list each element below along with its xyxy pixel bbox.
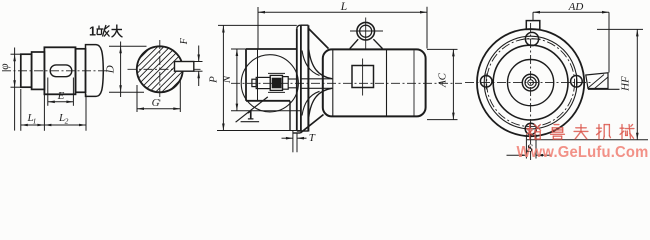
svg-text:2: 2 (65, 116, 69, 125)
svg-text:AD: AD (568, 1, 584, 13)
svg-text:E: E (57, 90, 65, 102)
svg-text:G: G (152, 97, 160, 109)
svg-text:φ: φ (0, 63, 11, 70)
svg-text:AC: AC (436, 72, 448, 88)
svg-text:T: T (309, 132, 316, 144)
svg-text:P: P (207, 76, 219, 84)
svg-text:1: 1 (247, 109, 254, 123)
svg-text:HF: HF (620, 76, 632, 92)
svg-text:1: 1 (89, 25, 96, 39)
svg-text:1: 1 (33, 116, 37, 125)
svg-text:F: F (179, 37, 190, 45)
svg-text:Www.GeLufu.Com: Www.GeLufu.Com (517, 144, 649, 161)
svg-text:L: L (340, 1, 347, 13)
svg-text:S: S (527, 141, 533, 155)
svg-text:D: D (105, 65, 117, 74)
svg-text:N: N (221, 75, 233, 84)
